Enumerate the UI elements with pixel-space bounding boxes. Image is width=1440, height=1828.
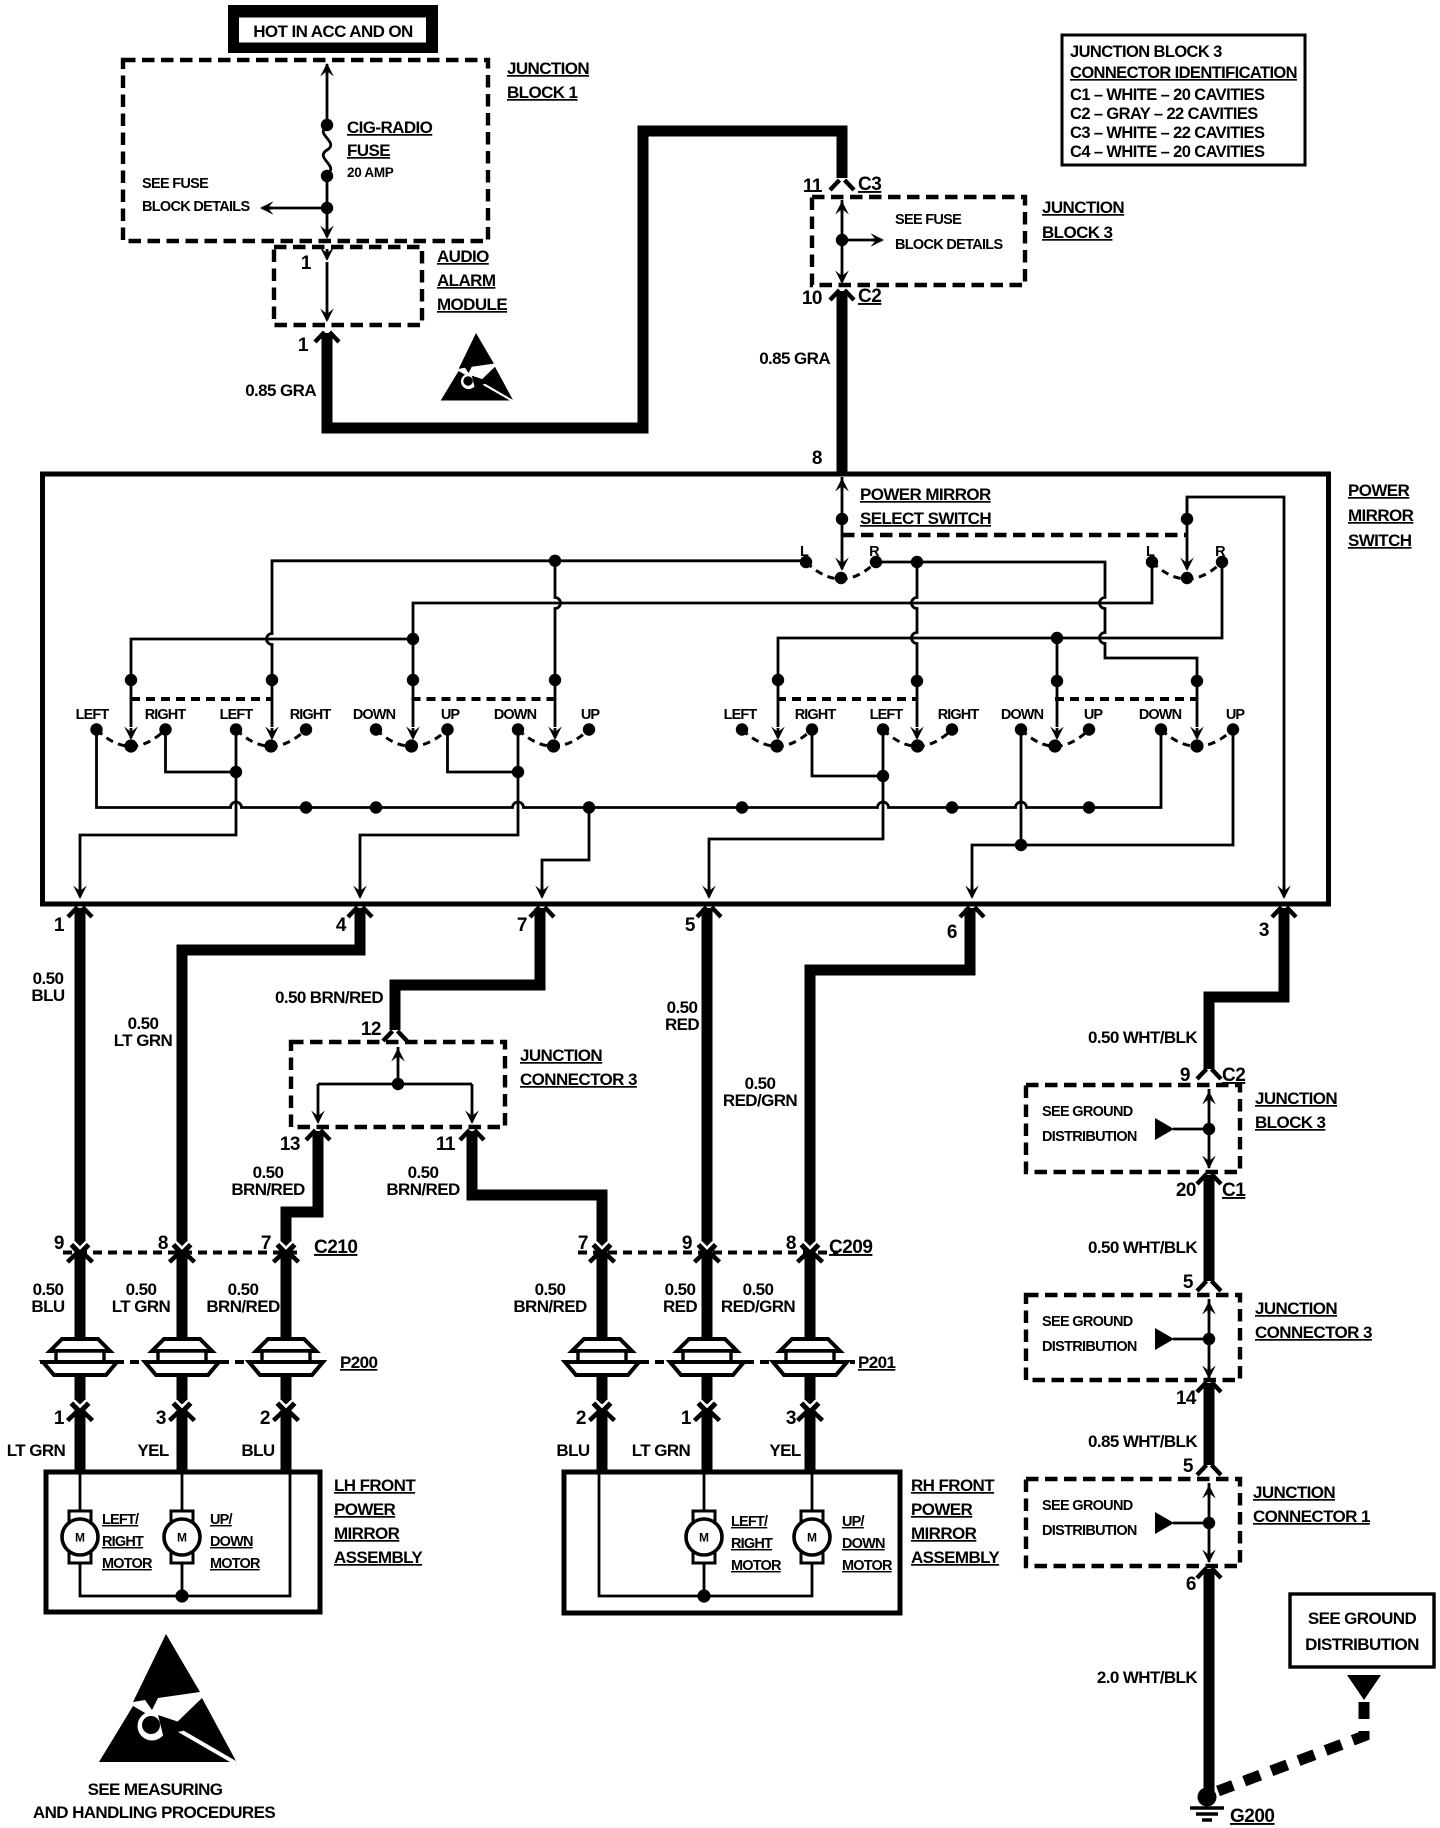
svg-text:UP: UP (1226, 707, 1246, 723)
svg-text:JUNCTION: JUNCTION (520, 1046, 602, 1065)
svg-text:LEFT/: LEFT/ (731, 1514, 768, 1530)
svg-text:C210: C210 (314, 1237, 357, 1258)
svg-text:C1: C1 (1222, 1180, 1246, 1201)
connector C2 pin 9 labels (1180, 1065, 1245, 1086)
wire YEL into LH assembly (177, 1413, 188, 1472)
power mirror select switch label (860, 485, 991, 528)
LH left/right motor label (102, 1512, 153, 1572)
RH pin 3 connector (786, 1401, 823, 1430)
svg-text:1: 1 (54, 915, 65, 936)
junction block 3 lower label (1255, 1089, 1337, 1132)
contact pair 4 DOWN/UP (494, 707, 601, 753)
svg-text:14: 14 (1176, 1388, 1197, 1409)
contact pair 5 LEFT/RIGHT right half (724, 707, 837, 753)
svg-text:C209: C209 (829, 1237, 872, 1258)
svg-text:6: 6 (947, 922, 957, 943)
svg-text:YEL: YEL (137, 1441, 168, 1460)
wire 0.50 BRN/RED pin11 to C209 (472, 1131, 602, 1247)
svg-text:ASSEMBLY: ASSEMBLY (911, 1548, 1000, 1567)
svg-text:RH FRONT: RH FRONT (911, 1476, 995, 1495)
svg-text:DOWN: DOWN (1139, 707, 1182, 723)
wire from HOT bus to fuse (320, 63, 334, 124)
see fuse block details label (142, 176, 250, 215)
linkage dashed pair5-6 (777, 697, 918, 701)
svg-text:BLOCK 1: BLOCK 1 (507, 83, 578, 102)
connector C210 (54, 1233, 358, 1262)
svg-text:POWER: POWER (911, 1500, 973, 1519)
junction connector 1 internals (1155, 1483, 1216, 1563)
select switch right input wire (1180, 497, 1194, 571)
pin 1 connector (54, 907, 92, 936)
wire label 0.50 RED/GRN (723, 1074, 798, 1110)
svg-text:0.85 GRA: 0.85 GRA (245, 381, 316, 400)
svg-text:POWER: POWER (1348, 481, 1410, 500)
svg-text:MOTOR: MOTOR (842, 1558, 893, 1574)
svg-text:LEFT: LEFT (870, 707, 904, 723)
contact pair 8 DOWN/UP right half (1139, 707, 1246, 753)
svg-text:2: 2 (576, 1408, 586, 1429)
junction block 3 see fuse label (895, 212, 1003, 253)
svg-text:BLU: BLU (556, 1441, 589, 1460)
svg-text:RED: RED (665, 1015, 699, 1034)
svg-text:POWER MIRROR: POWER MIRROR (860, 485, 991, 504)
svg-text:CIG-RADIO: CIG-RADIO (347, 118, 433, 137)
svg-text:CONNECTOR 1: CONNECTOR 1 (1253, 1507, 1370, 1526)
svg-text:CONNECTOR 3: CONNECTOR 3 (1255, 1323, 1372, 1342)
wire LT GRN into RH assembly (702, 1413, 713, 1472)
select switch right L terminal (1146, 544, 1158, 568)
svg-text:BLU: BLU (31, 986, 64, 1005)
wire label 0.50 BRN/RED 11 (386, 1163, 460, 1199)
svg-text:DOWN: DOWN (1001, 707, 1044, 723)
svg-text:10: 10 (802, 288, 822, 309)
wire label 0.50 BRN/RED lower right (513, 1280, 587, 1316)
svg-text:SEE GROUND: SEE GROUND (1042, 1104, 1133, 1120)
wire label 0.50 RED lower (663, 1280, 697, 1316)
junction block 3 internal wire (835, 200, 849, 284)
svg-text:5: 5 (685, 915, 696, 936)
select switch left R terminal (869, 544, 882, 568)
svg-text:9: 9 (54, 1233, 64, 1254)
RH up/down motor M (794, 1511, 830, 1563)
pin 3 connector (1259, 907, 1296, 941)
wire 0.50 BRN/RED C210 to P200 (281, 1250, 292, 1404)
svg-text:8: 8 (786, 1233, 796, 1254)
junction connector 3 right dashed box (1026, 1295, 1240, 1380)
RH up/down motor label (842, 1514, 893, 1574)
wire net C to pair 1 (124, 639, 413, 740)
wire left2 stem to pin 1 (73, 730, 236, 900)
svg-text:LEFT/: LEFT/ (102, 1512, 139, 1528)
audio alarm module dashed box (274, 247, 422, 325)
svg-text:UP/: UP/ (842, 1514, 865, 1530)
svg-text:YEL: YEL (769, 1441, 800, 1460)
junction connector 3 label (520, 1046, 637, 1089)
svg-text:P200: P200 (340, 1353, 377, 1372)
svg-text:FUSE: FUSE (347, 141, 390, 160)
svg-text:SEE FUSE: SEE FUSE (142, 176, 209, 192)
svg-text:LT GRN: LT GRN (632, 1441, 691, 1460)
wire label 0.50 BRN/RED 13 (231, 1163, 305, 1199)
connector C1 pin 20 (1176, 1174, 1246, 1201)
see fuse block details arrow (260, 201, 327, 215)
svg-text:20: 20 (1176, 1180, 1196, 1201)
wire BLU into RH assembly (597, 1413, 608, 1472)
svg-text:C2: C2 (858, 286, 881, 307)
connector C2 pin 10 (802, 286, 881, 309)
ground G200 (1190, 1788, 1274, 1828)
svg-text:RIGHT: RIGHT (938, 707, 980, 723)
svg-text:SEE FUSE: SEE FUSE (895, 212, 962, 228)
pin 5 connector (685, 907, 721, 936)
svg-text:C3: C3 (858, 174, 881, 195)
junction connector 1 dashed box (1026, 1479, 1240, 1566)
svg-text:DISTRIBUTION: DISTRIBUTION (1042, 1339, 1137, 1355)
audio alarm module pin 1 top (301, 248, 334, 323)
junction connector 1 see ground label (1042, 1498, 1137, 1539)
svg-text:1: 1 (301, 253, 312, 274)
RH pin 2 connector (576, 1401, 615, 1430)
svg-text:DISTRIBUTION: DISTRIBUTION (1305, 1635, 1419, 1654)
svg-text:7: 7 (517, 915, 527, 936)
svg-text:2.0 WHT/BLK: 2.0 WHT/BLK (1097, 1668, 1198, 1687)
svg-text:LEFT: LEFT (220, 707, 254, 723)
fuse label CIG-RADIO FUSE 20 AMP (347, 118, 433, 180)
audio alarm module pin 1 bottom connector (298, 332, 339, 356)
svg-text:LEFT: LEFT (76, 707, 110, 723)
svg-text:LT GRN: LT GRN (114, 1031, 173, 1050)
power mirror switch label (1348, 481, 1414, 550)
svg-text:AUDIO: AUDIO (437, 247, 489, 266)
wire net A branch to pair 4 (548, 561, 562, 740)
svg-text:MOTOR: MOTOR (731, 1558, 782, 1574)
svg-text:UP: UP (1084, 707, 1104, 723)
grommet P201 (565, 1339, 895, 1375)
select switch right R terminal (1215, 544, 1228, 568)
svg-text:UP: UP (441, 707, 461, 723)
wire label 0.50 BRN/RED lower (206, 1280, 280, 1316)
LH pin 3 connector (156, 1401, 195, 1430)
junction connector 3 pin 14 (1176, 1382, 1221, 1409)
junction connector 3 right see ground label (1042, 1314, 1137, 1355)
svg-text:RED/GRN: RED/GRN (723, 1091, 798, 1110)
junction connector 3 right internals (1155, 1299, 1216, 1379)
svg-text:RED: RED (663, 1297, 697, 1316)
RH internal wiring (599, 1474, 812, 1603)
svg-text:BLU: BLU (31, 1297, 64, 1316)
svg-text:RED/GRN: RED/GRN (721, 1297, 796, 1316)
svg-text:ALARM: ALARM (437, 271, 496, 290)
svg-text:UP: UP (581, 707, 601, 723)
contact pair 1 LEFT/RIGHT (76, 707, 187, 753)
junction block 3 lower see ground label (1042, 1104, 1137, 1145)
wire 0.85 GRA to power mirror switch pin 8 (837, 291, 848, 472)
junction block 1 dashed box (123, 60, 488, 241)
wire net A from select L1 terminal (265, 555, 806, 740)
svg-text:MOTOR: MOTOR (102, 1556, 153, 1572)
svg-text:LT GRN: LT GRN (7, 1441, 66, 1460)
svg-text:JUNCTION: JUNCTION (1042, 198, 1124, 217)
svg-text:C1 – WHITE – 20 CAVITIES: C1 – WHITE – 20 CAVITIES (1070, 86, 1265, 104)
svg-text:2: 2 (260, 1408, 270, 1429)
svg-text:SEE GROUND: SEE GROUND (1308, 1609, 1417, 1628)
linkage dashed pair3-4 (412, 697, 554, 701)
ESD caution label (33, 1780, 275, 1822)
svg-text:9: 9 (682, 1233, 692, 1254)
LH internal wiring (80, 1474, 290, 1603)
wire label 0.50 BLU (31, 969, 64, 1005)
wire net D branch to pair 2 right (910, 562, 924, 740)
RH front power mirror assembly box (564, 1472, 900, 1613)
svg-text:5: 5 (1183, 1272, 1194, 1293)
junction block 3 connector identification table (1062, 35, 1305, 165)
svg-text:1: 1 (54, 1408, 65, 1429)
junction block 3 lower internals (1155, 1089, 1216, 1169)
LH left/right motor M (62, 1511, 98, 1563)
wire fuse to junction block 1 bottom (320, 176, 334, 239)
svg-text:G200: G200 (1230, 1806, 1274, 1827)
power mirror switch box (43, 474, 1329, 904)
select switch left input wire (835, 477, 849, 571)
svg-text:CONNECTOR IDENTIFICATION: CONNECTOR IDENTIFICATION (1070, 64, 1297, 82)
wire 0.50 BRN/RED pin7 to junction connector 3 (383, 908, 540, 1041)
pin 3 internal arrow (1277, 886, 1291, 900)
LH up/down motor M (164, 1511, 200, 1563)
svg-text:1: 1 (298, 335, 309, 356)
wire 0.50 RED/GRN C209 to P201 (805, 1250, 816, 1404)
RH left/right motor label (731, 1514, 782, 1574)
wire net B from select L2 terminal (406, 562, 1152, 740)
wire select right to pin 3 (1187, 497, 1284, 894)
svg-text:3: 3 (1259, 920, 1269, 941)
wire 0.50 RED pin5 to C209 (702, 908, 713, 1247)
wire left6 stem to pin 5 (702, 730, 883, 900)
svg-text:LH FRONT: LH FRONT (334, 1476, 416, 1495)
svg-text:MOTOR: MOTOR (210, 1556, 261, 1572)
svg-text:JUNCTION: JUNCTION (1255, 1089, 1337, 1108)
svg-text:P201: P201 (858, 1353, 895, 1372)
wire 0.85 WHT/BLK to junction connector 1 (1197, 1383, 1221, 1475)
fuse CIG-RADIO 20A (321, 119, 333, 182)
svg-text:0.50 BRN/RED: 0.50 BRN/RED (275, 988, 383, 1007)
junction block 3 dashed box top (812, 197, 1025, 285)
svg-text:BRN/RED: BRN/RED (513, 1297, 587, 1316)
contact pair 3 DOWN/UP (353, 707, 461, 753)
wire label 0.50 BLU lower (31, 1280, 64, 1316)
pin 11 connector (436, 1130, 484, 1155)
svg-text:7: 7 (261, 1233, 271, 1254)
svg-text:HOT IN ACC AND ON: HOT IN ACC AND ON (253, 22, 413, 41)
ground distribution dashed wire (1218, 1702, 1364, 1791)
wire 0.50 BLU pin1 to C210 (75, 908, 86, 1247)
svg-text:MODULE: MODULE (437, 295, 507, 314)
wire label 0.50 RED (665, 998, 699, 1034)
junction connector 3 right label (1255, 1299, 1372, 1342)
contact pair 6 LEFT/RIGHT right half (870, 707, 980, 753)
svg-text:DOWN: DOWN (353, 707, 396, 723)
LH front power mirror assembly box (46, 1472, 320, 1612)
power source box HOT IN ACC AND ON (228, 5, 438, 53)
svg-text:0.50 WHT/BLK: 0.50 WHT/BLK (1088, 1028, 1198, 1047)
svg-text:RIGHT: RIGHT (145, 707, 187, 723)
wire 0.50 BLU C210 to P200 (75, 1250, 86, 1404)
wire net D from select R1 terminal (876, 556, 1204, 740)
svg-text:11: 11 (436, 1134, 456, 1155)
svg-text:1: 1 (681, 1408, 692, 1429)
svg-text:13: 13 (280, 1134, 300, 1155)
svg-text:DOWN: DOWN (842, 1536, 885, 1552)
svg-text:JUNCTION: JUNCTION (1253, 1483, 1335, 1502)
wire 0.85 GRA feed from audio alarm module to C3 (327, 131, 842, 428)
svg-text:ASSEMBLY: ASSEMBLY (334, 1548, 423, 1567)
wire net E branch to pair 3 right (1050, 638, 1064, 740)
svg-text:SEE MEASURING: SEE MEASURING (88, 1780, 223, 1799)
select switch left L terminal (800, 544, 812, 568)
svg-text:8: 8 (812, 448, 822, 469)
svg-text:8: 8 (158, 1233, 168, 1254)
svg-text:DOWN: DOWN (210, 1534, 253, 1550)
svg-text:RIGHT: RIGHT (290, 707, 332, 723)
wire 2.0 WHT/BLK to ground (1204, 1569, 1215, 1793)
svg-text:UP/: UP/ (210, 1512, 233, 1528)
contact pair 7 DOWN/UP right half (1001, 707, 1104, 753)
wire label 0.50 LT GRN lower (112, 1280, 171, 1316)
svg-text:JUNCTION: JUNCTION (1255, 1299, 1337, 1318)
LH pin 1 connector (54, 1401, 93, 1430)
svg-text:C3 – WHITE – 22 CAVITIES: C3 – WHITE – 22 CAVITIES (1070, 124, 1265, 142)
wire up1 to down2 stem (448, 730, 525, 779)
svg-text:BRN/RED: BRN/RED (206, 1297, 280, 1316)
svg-text:RIGHT: RIGHT (795, 707, 837, 723)
svg-text:MIRROR: MIRROR (1348, 506, 1414, 525)
svg-text:MIRROR: MIRROR (911, 1524, 977, 1543)
svg-text:C4 – WHITE – 20 CAVITIES: C4 – WHITE – 20 CAVITIES (1070, 143, 1265, 161)
svg-text:SELECT SWITCH: SELECT SWITCH (860, 509, 991, 528)
connector C3 pin 11 (803, 174, 881, 197)
svg-text:MIRROR: MIRROR (334, 1524, 400, 1543)
svg-text:BLOCK DETAILS: BLOCK DETAILS (142, 199, 250, 215)
see ground distribution box (1290, 1594, 1434, 1667)
svg-text:4: 4 (336, 915, 347, 936)
svg-text:0.85 WHT/BLK: 0.85 WHT/BLK (1088, 1432, 1198, 1451)
select switch right contact arc (1152, 562, 1222, 584)
wire 0.50 LT GRN C210 to P200 (177, 1250, 188, 1404)
wire 0.50 RED C209 to P201 (702, 1250, 713, 1404)
wire up8 to pin 6 (965, 730, 1233, 900)
svg-text:JUNCTION: JUNCTION (507, 59, 589, 78)
wire 0.50 BRN/RED pin13 to C210 (286, 1131, 318, 1247)
svg-text:POWER: POWER (334, 1500, 396, 1519)
wire right5 to left6 stem (812, 730, 889, 783)
junction block 1 label (507, 59, 589, 102)
svg-text:CONNECTOR 3: CONNECTOR 3 (520, 1070, 637, 1089)
select switch left contact arc (806, 562, 876, 584)
svg-text:AND HANDLING PROCEDURES: AND HANDLING PROCEDURES (33, 1803, 275, 1822)
svg-text:3: 3 (156, 1408, 166, 1429)
contact pair 2 LEFT/RIGHT (220, 707, 332, 753)
svg-text:SEE GROUND: SEE GROUND (1042, 1314, 1133, 1330)
svg-text:BLU: BLU (241, 1441, 274, 1460)
linkage dashed pair1-2 (131, 697, 271, 701)
RH left/right motor M (686, 1511, 722, 1563)
junction connector 1 pin 6 (1186, 1568, 1221, 1595)
svg-text:12: 12 (361, 1019, 381, 1040)
svg-text:JUNCTION BLOCK 3: JUNCTION BLOCK 3 (1070, 43, 1222, 61)
wire right1 to left2 stem (166, 730, 243, 779)
svg-text:11: 11 (803, 176, 823, 197)
svg-text:SWITCH: SWITCH (1348, 531, 1412, 550)
ESD symbol large (99, 1634, 236, 1762)
svg-text:BLOCK 3: BLOCK 3 (1255, 1113, 1326, 1132)
junction block 3 see fuse arrow (842, 233, 884, 247)
wire 0.50 BRN/RED C209 to P201 (597, 1250, 608, 1404)
grommet P200 (40, 1339, 377, 1375)
svg-text:LEFT: LEFT (724, 707, 758, 723)
wire net E from select R2 terminal (771, 562, 1222, 740)
wire down7 stem to junction (1015, 730, 1027, 852)
svg-text:7: 7 (578, 1233, 588, 1254)
junction block 3 label (1042, 198, 1124, 242)
junction connector 1 label (1253, 1483, 1370, 1526)
wire YEL into RH assembly (805, 1413, 816, 1472)
LH assembly label (334, 1476, 423, 1567)
wire BLU into LH assembly (281, 1413, 292, 1472)
pin 7 connector (517, 907, 554, 936)
svg-text:SEE GROUND: SEE GROUND (1042, 1498, 1133, 1514)
audio alarm module label (437, 247, 507, 314)
wire 0.50 WHT/BLK pin3 to junction block 3 (1197, 908, 1284, 1079)
pin 13 connector (280, 1130, 330, 1155)
svg-text:DISTRIBUTION: DISTRIBUTION (1042, 1129, 1137, 1145)
pin 4 connector (336, 907, 372, 936)
svg-text:DOWN: DOWN (494, 707, 537, 723)
wire up2 stem to pin 7 (535, 808, 589, 900)
wire common bus y807 (97, 730, 1162, 814)
LH pin 2 connector (260, 1401, 299, 1430)
svg-text:5: 5 (1183, 1456, 1194, 1477)
linkage dashed pair7-8 (1055, 697, 1197, 701)
wire down2 stem to pin 4 (353, 730, 518, 900)
RH pin 1 connector (681, 1401, 720, 1430)
svg-text:3: 3 (786, 1408, 796, 1429)
svg-text:LT GRN: LT GRN (112, 1297, 171, 1316)
ESD symbol small (441, 333, 513, 400)
wire 0.50 RED/GRN pin6 to C209 (810, 908, 970, 1247)
wire 0.50 WHT/BLK to junction connector 3 (1197, 1175, 1221, 1291)
LH up/down motor label (210, 1512, 261, 1572)
svg-text:20 AMP: 20 AMP (347, 165, 394, 180)
svg-text:BRN/RED: BRN/RED (231, 1180, 305, 1199)
junction connector 3 dashed box (291, 1042, 505, 1127)
svg-text:0.85 GRA: 0.85 GRA (759, 349, 830, 368)
svg-text:RIGHT: RIGHT (102, 1534, 144, 1550)
pin 6 connector (947, 907, 984, 943)
svg-text:BLOCK 3: BLOCK 3 (1042, 223, 1113, 242)
svg-text:BLOCK DETAILS: BLOCK DETAILS (895, 237, 1003, 253)
wire label 0.50 LT GRN (114, 1014, 173, 1050)
svg-text:C2 – GRAY – 22 CAVITIES: C2 – GRAY – 22 CAVITIES (1070, 105, 1258, 123)
connector C209 (578, 1233, 873, 1262)
svg-text:6: 6 (1186, 1574, 1196, 1595)
svg-text:DISTRIBUTION: DISTRIBUTION (1042, 1523, 1137, 1539)
svg-text:BRN/RED: BRN/RED (386, 1180, 460, 1199)
wire label 0.50 RED/GRN lower (721, 1280, 796, 1316)
ground distribution arrow (1347, 1675, 1381, 1700)
junction connector 3 internal wires (311, 1047, 479, 1124)
select switch linkage dashed (842, 533, 1187, 537)
wire 0.50 LT GRN pin4 to C210 (182, 908, 360, 1247)
svg-text:RIGHT: RIGHT (731, 1536, 773, 1552)
